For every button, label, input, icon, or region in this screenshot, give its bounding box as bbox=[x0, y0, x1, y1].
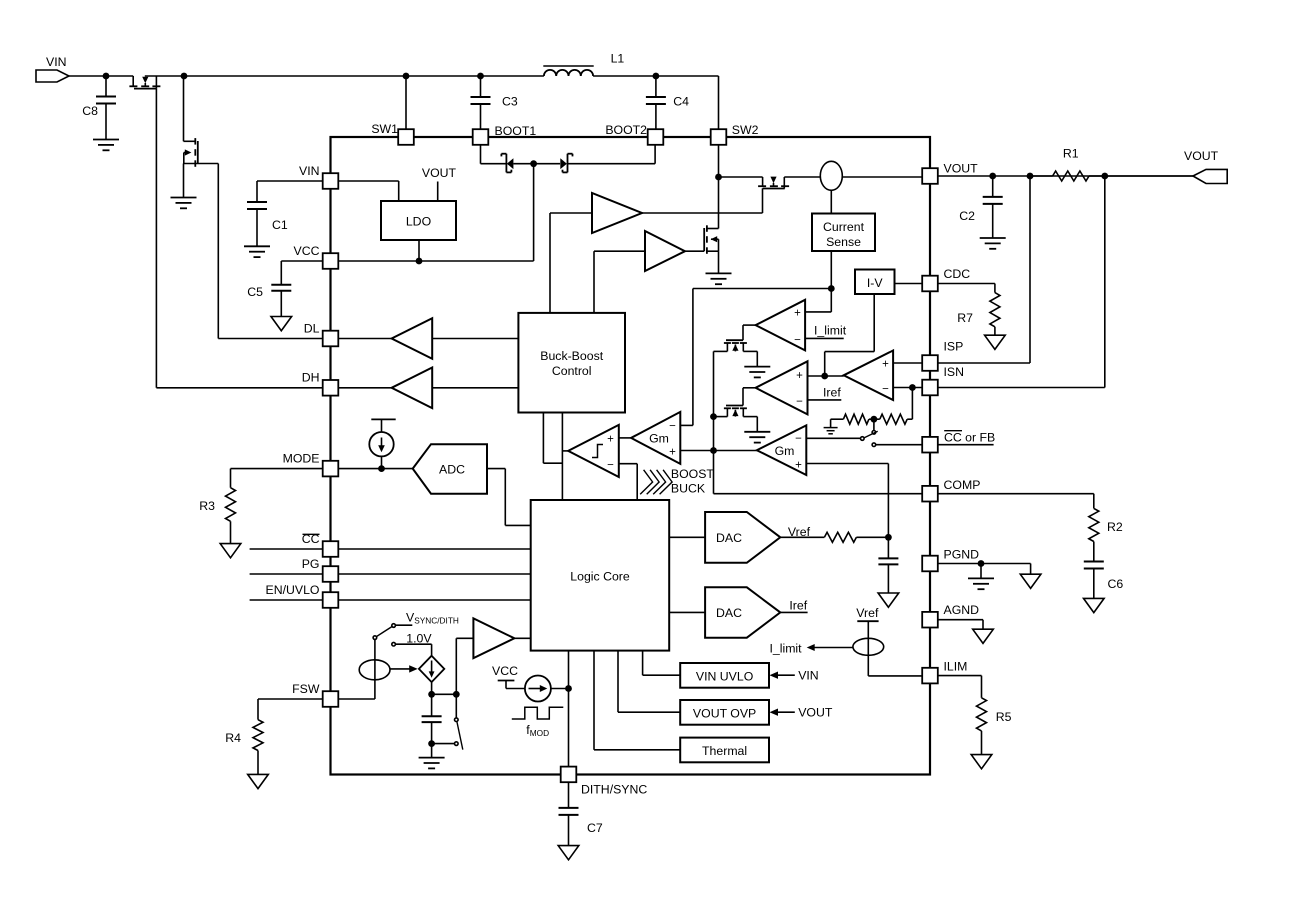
ground below C7 bbox=[558, 846, 579, 860]
pin SW1 bbox=[371, 122, 413, 145]
pin SW2 bbox=[711, 123, 759, 145]
pin COMP bbox=[922, 478, 980, 501]
svg-text:1.0V: 1.0V bbox=[406, 631, 432, 645]
svg-text:Iref: Iref bbox=[789, 599, 807, 613]
svg-text:C1: C1 bbox=[272, 218, 288, 232]
wire SW2 drop bbox=[718, 76, 720, 130]
wire BOOT1 to diode bbox=[481, 145, 507, 164]
regulator LDO bbox=[381, 201, 456, 240]
svg-text:VOUT: VOUT bbox=[1184, 149, 1219, 163]
block VOUT OVP bbox=[618, 651, 769, 725]
pin CC bbox=[302, 532, 339, 557]
current probe ellipse bbox=[820, 161, 922, 190]
pin ILIM bbox=[922, 660, 967, 684]
wire Iref comp output bbox=[743, 388, 756, 406]
capacitor C2 bbox=[959, 176, 1002, 238]
node Q1-Q2 junction bbox=[181, 73, 188, 80]
svg-text:CDC: CDC bbox=[944, 267, 971, 281]
svg-text:COMP: COMP bbox=[944, 478, 981, 492]
node LDO-VCC junction bbox=[416, 258, 423, 265]
svg-text:C4: C4 bbox=[673, 95, 689, 109]
resistor R4 bbox=[225, 699, 263, 774]
ground below Q5 bbox=[744, 367, 770, 378]
svg-text:−: − bbox=[796, 396, 803, 408]
block I-V converter bbox=[855, 270, 895, 295]
svg-text:DAC: DAC bbox=[716, 531, 742, 545]
node SW2-VOUT junction bbox=[715, 174, 722, 181]
pin PG bbox=[302, 557, 339, 582]
svg-text:−: − bbox=[607, 460, 614, 472]
pin DH bbox=[302, 371, 339, 396]
net Iref threshold stub bbox=[808, 385, 842, 400]
net 1.0V label bbox=[406, 631, 432, 645]
svg-text:I-V: I-V bbox=[867, 276, 884, 290]
svg-text:VIN: VIN bbox=[299, 164, 320, 178]
wire Vref to ILIM pin bbox=[868, 675, 922, 677]
switch SYNC/DITH select bbox=[339, 624, 432, 699]
VOUT output connector bbox=[1105, 149, 1227, 184]
wire VOUT rail bbox=[938, 175, 1193, 177]
controlled current source dither bbox=[390, 656, 444, 695]
transistor Q3 internal SW2 FET bbox=[704, 145, 718, 273]
buffer SYNC input bbox=[473, 618, 530, 658]
buffer DH driver bbox=[339, 368, 519, 409]
svg-text:Thermal: Thermal bbox=[702, 744, 747, 758]
converter DAC Iref bbox=[669, 587, 780, 637]
wire current sense to Gm1 bbox=[680, 289, 831, 426]
node dither cap bottom bbox=[428, 740, 435, 757]
svg-text:CC or FB: CC or FB bbox=[944, 431, 995, 445]
node ISP sense junction bbox=[1027, 173, 1034, 180]
svg-text:R3: R3 bbox=[199, 499, 215, 513]
svg-text:SW2: SW2 bbox=[732, 123, 759, 137]
svg-text:R2: R2 bbox=[1107, 520, 1123, 534]
svg-text:AGND: AGND bbox=[944, 603, 980, 617]
resistor R5 bbox=[938, 676, 1011, 755]
node C3 rail junction bbox=[477, 73, 484, 80]
resistor divider R upper bbox=[831, 414, 869, 424]
node C2 junction bbox=[989, 173, 996, 180]
ground below C5 bbox=[271, 317, 292, 331]
node dither cap junction bbox=[428, 691, 456, 698]
pin ISN bbox=[922, 365, 964, 395]
svg-text:+: + bbox=[795, 460, 802, 472]
ground below R5 bbox=[971, 755, 992, 769]
wire buck-boost to logic jog bbox=[543, 413, 562, 464]
svg-text:ILIM: ILIM bbox=[944, 660, 968, 674]
pin BOOT1 bbox=[473, 124, 537, 145]
wire Q1 gate to DH bbox=[156, 89, 322, 388]
wire Gm outputs to COMP bbox=[680, 451, 922, 494]
current source MODE pullup bbox=[369, 419, 395, 468]
svg-text:DAC: DAC bbox=[716, 606, 742, 620]
svg-text:PGND: PGND bbox=[944, 548, 980, 562]
node divider tap bbox=[869, 416, 880, 423]
net VIN arrow into UVLO bbox=[770, 669, 819, 683]
transistor Q5 I_limit pulldown bbox=[714, 340, 758, 366]
svg-text:Gm: Gm bbox=[775, 444, 795, 458]
node drain rail Gm junction bbox=[710, 447, 717, 454]
resistor R1 bbox=[1030, 147, 1105, 182]
svg-text:R7: R7 bbox=[957, 311, 973, 325]
pin BOOT2 bbox=[605, 123, 663, 145]
oscillator ellipse FSW bbox=[359, 660, 390, 680]
svg-text:C8: C8 bbox=[82, 104, 98, 118]
node C4 rail junction bbox=[653, 73, 660, 80]
ground below C6 bbox=[1084, 598, 1105, 612]
node ISN divider junction bbox=[909, 384, 916, 391]
svg-text:−: − bbox=[795, 433, 802, 445]
svg-text:R4: R4 bbox=[225, 731, 241, 745]
ground below Q2 bbox=[171, 164, 197, 209]
svg-text:DH: DH bbox=[302, 371, 320, 385]
node dither buffer junction bbox=[453, 638, 474, 697]
power Vref tee bbox=[856, 606, 879, 676]
net BOOST BUCK ramps bbox=[640, 467, 714, 496]
node PGND junction bbox=[978, 560, 985, 578]
svg-text:DITH/SYNC: DITH/SYNC bbox=[581, 783, 647, 797]
switch dither reset bbox=[433, 694, 463, 749]
ground below dither cap bbox=[419, 758, 445, 769]
svg-text:+: + bbox=[669, 447, 676, 459]
converter ADC bbox=[339, 444, 531, 525]
capacitor C1 bbox=[247, 181, 323, 246]
svg-text:R5: R5 bbox=[996, 710, 1012, 724]
block Current Sense bbox=[812, 190, 875, 251]
pin DL bbox=[304, 321, 339, 346]
svg-text:BUCK: BUCK bbox=[671, 482, 706, 496]
pin VCC bbox=[294, 244, 339, 269]
node SW1 rail junction bbox=[403, 73, 410, 80]
svg-text:VIN UVLO: VIN UVLO bbox=[696, 670, 753, 684]
wire Q2 gate to DL bbox=[218, 164, 322, 339]
svg-text:VOUT: VOUT bbox=[798, 706, 833, 720]
wire VCC rail bbox=[339, 260, 534, 262]
capacitor C3 bbox=[471, 76, 518, 130]
node VCC boot junction bbox=[530, 160, 537, 167]
wire amp output to I-V bbox=[825, 294, 875, 376]
wire boot node to VCC rail bbox=[533, 164, 535, 261]
wire VIN rail bbox=[69, 75, 406, 77]
wire PGND external bbox=[938, 563, 1030, 565]
capacitor dither ramp bbox=[422, 694, 442, 743]
wire PG pin stub bbox=[250, 573, 531, 575]
ground below R3 bbox=[220, 544, 241, 558]
svg-text:DL: DL bbox=[304, 321, 320, 335]
pin MODE bbox=[283, 451, 339, 476]
net CC or FB stub bbox=[938, 431, 995, 445]
svg-text:VOUT: VOUT bbox=[422, 166, 457, 180]
node VIN-C8 junction bbox=[103, 73, 110, 80]
resistor divider R lower bbox=[880, 388, 913, 425]
svg-text:Iref: Iref bbox=[823, 385, 841, 399]
node ISN sense junction bbox=[1101, 173, 1108, 180]
pin CC-or-FB bbox=[922, 437, 938, 453]
waveform fMOD square wave bbox=[512, 707, 564, 738]
capacitor C6 bbox=[1084, 562, 1124, 599]
svg-text:SW1: SW1 bbox=[371, 122, 398, 136]
transistor Q6 Iref pulldown bbox=[714, 406, 758, 432]
capacitor Vref filter bbox=[878, 537, 898, 593]
ground below Q6 bbox=[744, 432, 770, 443]
pin ISP bbox=[922, 340, 963, 371]
power VCC tee bbox=[492, 664, 525, 689]
resistor R7 bbox=[938, 284, 1000, 336]
wire FET drain rail bbox=[713, 351, 715, 450]
svg-text:Current: Current bbox=[823, 220, 865, 234]
svg-text:Gm: Gm bbox=[649, 432, 669, 446]
pin EN/UVLO bbox=[266, 583, 339, 608]
transistor Q1 input disconnect FET bbox=[129, 76, 160, 89]
inductor L1 bbox=[543, 52, 624, 77]
svg-text:LDO: LDO bbox=[406, 215, 431, 229]
node current sense tap bbox=[828, 285, 835, 292]
node fMOD junction bbox=[565, 685, 572, 692]
svg-text:EN/UVLO: EN/UVLO bbox=[266, 583, 320, 597]
comparator I_limit bbox=[756, 289, 832, 351]
buffer switch driver B bbox=[594, 231, 704, 313]
diode D2 bbox=[534, 145, 656, 173]
wire VIN pin to LDO bbox=[339, 181, 399, 201]
svg-text:VCC: VCC bbox=[294, 244, 320, 258]
svg-text:VCC: VCC bbox=[492, 664, 518, 678]
node ISP-ISN amp output bbox=[821, 373, 828, 380]
pin FSW bbox=[292, 682, 338, 707]
ground PGND triangle bbox=[1020, 564, 1041, 589]
svg-text:ISN: ISN bbox=[944, 365, 965, 379]
svg-text:+: + bbox=[794, 307, 801, 319]
svg-text:+: + bbox=[796, 370, 803, 382]
opamp Gm2 bbox=[757, 425, 889, 537]
svg-text:VIN: VIN bbox=[46, 55, 67, 69]
wire SW1 drop bbox=[405, 76, 407, 130]
ground below C2 bbox=[980, 238, 1006, 249]
svg-text:C3: C3 bbox=[502, 95, 518, 109]
ground below R7 bbox=[985, 335, 1006, 349]
svg-text:−: − bbox=[669, 421, 676, 433]
wire current sense output bbox=[830, 251, 832, 289]
svg-text:ISP: ISP bbox=[944, 340, 964, 354]
svg-text:BOOT1: BOOT1 bbox=[495, 124, 537, 138]
svg-text:I_limit: I_limit bbox=[769, 642, 802, 656]
svg-text:VIN: VIN bbox=[798, 669, 819, 683]
svg-text:BOOST: BOOST bbox=[671, 467, 715, 481]
net I_limit threshold stub bbox=[805, 324, 847, 339]
wire EN/UVLO pin stub bbox=[250, 599, 531, 601]
control block Buck-Boost Control bbox=[518, 313, 625, 413]
net VOUT arrow into OVP bbox=[770, 706, 833, 720]
wire CC pin stub bbox=[250, 548, 531, 550]
ground below C1 bbox=[244, 246, 270, 257]
svg-text:C6: C6 bbox=[1108, 577, 1124, 591]
resistor Vref filter bbox=[780, 532, 888, 542]
svg-text:−: − bbox=[794, 334, 801, 346]
pin DITH/SYNC bbox=[561, 767, 648, 797]
source Vref ellipse bbox=[853, 638, 884, 655]
svg-text:C5: C5 bbox=[247, 285, 263, 299]
converter DAC Vref bbox=[669, 512, 780, 563]
wire MODE external bbox=[231, 468, 323, 470]
pin PGND bbox=[922, 548, 979, 572]
capacitor C8 bbox=[82, 76, 116, 139]
transistor Q4 output disconnect FET bbox=[719, 177, 821, 189]
wire ISN sense bbox=[938, 176, 1105, 388]
resistor R3 bbox=[199, 469, 235, 544]
pin VIN bbox=[299, 164, 338, 189]
svg-text:FSW: FSW bbox=[292, 682, 320, 696]
capacitor C5 bbox=[247, 261, 322, 317]
svg-text:Sense: Sense bbox=[826, 235, 861, 249]
net I_limit arrow bbox=[769, 642, 852, 656]
ground below Q3 bbox=[706, 273, 732, 284]
svg-text:BOOT2: BOOT2 bbox=[605, 123, 647, 137]
svg-text:C2: C2 bbox=[959, 209, 975, 223]
svg-text:MODE: MODE bbox=[283, 451, 320, 465]
svg-text:Vref: Vref bbox=[856, 606, 879, 620]
svg-text:VOUT: VOUT bbox=[944, 162, 979, 176]
ground AGND bbox=[938, 620, 993, 644]
IC body outline bbox=[331, 137, 931, 775]
block Logic Core bbox=[531, 500, 670, 651]
VIN input connector bbox=[36, 55, 69, 82]
wire DITH/SYNC drop bbox=[568, 651, 570, 767]
diode D1 bbox=[501, 154, 533, 173]
node drain rail Q6 bbox=[710, 413, 717, 420]
ground PGND earth bbox=[968, 578, 994, 589]
ground below R4 bbox=[248, 774, 269, 788]
svg-text:ADC: ADC bbox=[439, 462, 465, 476]
wire I-V to CDC pin bbox=[895, 283, 923, 285]
pin AGND bbox=[922, 603, 979, 627]
net Vref label bbox=[788, 525, 811, 539]
node VOUT label above LDO bbox=[422, 166, 457, 201]
amplifier current sense ISP/ISN bbox=[825, 351, 923, 401]
net V_SYNC/DITH label bbox=[406, 610, 459, 625]
comparator PWM schmitt bbox=[568, 425, 637, 500]
ground below C8 bbox=[93, 140, 119, 151]
wire L1 output bbox=[406, 75, 719, 77]
wire ISP sense bbox=[938, 176, 1030, 363]
resistor R2 bbox=[938, 494, 1123, 562]
current source fMOD bbox=[525, 676, 569, 702]
node MODE junction bbox=[378, 465, 385, 472]
svg-text:Logic Core: Logic Core bbox=[570, 570, 630, 584]
capacitor C7 bbox=[559, 782, 603, 845]
block VIN UVLO bbox=[643, 651, 769, 688]
wire LDO output to VCC rail bbox=[418, 240, 420, 261]
svg-text:VOUT OVP: VOUT OVP bbox=[693, 707, 756, 721]
ground divider left bbox=[824, 419, 838, 434]
wire FSW external bbox=[258, 698, 323, 700]
comparator Iref bbox=[756, 361, 825, 414]
block Thermal bbox=[594, 651, 769, 763]
svg-text:PG: PG bbox=[302, 557, 320, 571]
svg-text:I_limit: I_limit bbox=[814, 324, 847, 338]
buffer DL driver bbox=[339, 318, 519, 359]
net Iref output stub bbox=[780, 599, 807, 613]
capacitor C4 bbox=[646, 76, 689, 130]
svg-text:+: + bbox=[882, 359, 889, 371]
buffer switch driver A bbox=[550, 188, 763, 313]
svg-text:Buck-Boost: Buck-Boost bbox=[540, 349, 603, 363]
opamp Gm1 bbox=[619, 412, 681, 464]
svg-text:R1: R1 bbox=[1063, 147, 1079, 161]
wire I_limit comp output bbox=[743, 325, 756, 340]
ground below Vref cap bbox=[878, 593, 899, 607]
transistor Q2 reverse-block FET bbox=[184, 76, 219, 167]
switch CC/FB select bbox=[861, 419, 923, 446]
svg-text:−: − bbox=[882, 384, 889, 396]
pin VOUT bbox=[922, 162, 978, 184]
svg-text:+: + bbox=[607, 434, 614, 446]
pin CDC bbox=[922, 267, 970, 291]
svg-text:L1: L1 bbox=[611, 52, 625, 66]
svg-text:Control: Control bbox=[552, 364, 592, 378]
node Vref RC junction bbox=[885, 534, 892, 541]
svg-text:C7: C7 bbox=[587, 821, 603, 835]
wire schmitt output bbox=[562, 413, 568, 501]
